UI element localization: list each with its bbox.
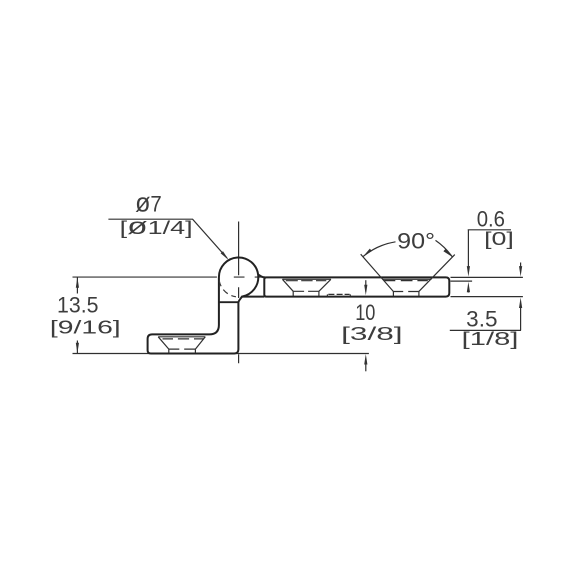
wire vertical centerline through pin: [238, 222, 240, 364]
svg-text:[0]: [0]: [484, 228, 514, 249]
arc arrowhead left: [363, 249, 372, 257]
hidden slot between holes: [327, 294, 350, 296]
wire horizontal centerline through pin: [73, 276, 263, 278]
arrow down 0.6: [467, 266, 470, 277]
arrowhead leader: [221, 251, 229, 260]
right extension lines: [451, 277, 523, 296]
hidden dashed arc of curl: [219, 281, 236, 297]
leaf A outline (curl + riser + foot): [148, 257, 259, 353]
leaf B bottom edge extension under curl: [242, 296, 265, 298]
fillet from curl to leaf B top: [259, 275, 266, 278]
arrow down 13.5: [76, 343, 79, 354]
svg-text:[3/8]: [3/8]: [341, 323, 403, 344]
leaf B outline (flat arm): [264, 277, 449, 296]
arrow down 10: [364, 285, 367, 296]
svg-text:[1/8]: [1/8]: [462, 328, 519, 349]
svg-text:10: 10: [355, 300, 375, 325]
arrow up 0.6: [467, 282, 470, 293]
arrow down 3.5: [519, 266, 522, 277]
arrow up 10: [364, 354, 367, 365]
arc arrowhead right: [443, 249, 452, 257]
node bottom extension line (13.5 / 10 datum): [73, 353, 369, 355]
dimension 3.5: [520, 263, 522, 269]
countersink hole 2 in leaf B: [382, 279, 431, 296]
dimension 10 arrows: [365, 280, 367, 291]
svg-text:[9/16]: [9/16]: [50, 316, 121, 337]
dimension 90 arc: [363, 240, 453, 257]
dimension 13.5 vertical line: [76, 277, 78, 353]
leader ø7: [108, 219, 227, 258]
curl-riser junction line: [219, 301, 238, 303]
svg-text:90°: 90°: [397, 228, 435, 253]
dimension 0.6: [468, 230, 511, 268]
90 legs: [361, 254, 455, 291]
svg-text:[ø1/4]: [ø1/4]: [120, 213, 193, 239]
arrow up 13.5: [76, 277, 79, 288]
countersink hole in foot: [158, 337, 205, 353]
arrow up 3.5: [519, 298, 522, 309]
svg-text:13.5: 13.5: [57, 292, 99, 317]
countersink hole 1 in leaf B: [282, 279, 331, 296]
